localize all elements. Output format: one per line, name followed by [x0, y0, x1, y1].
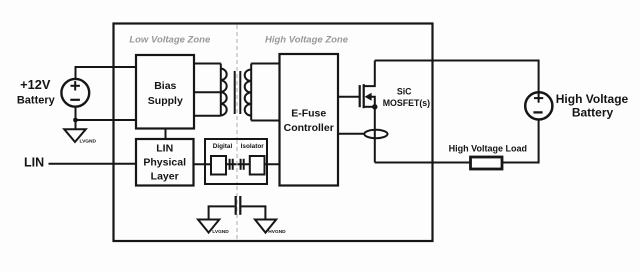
svg-text:LVGND: LVGND [80, 138, 97, 144]
wire HV battery down [502, 119, 539, 162]
transformer core [234, 71, 236, 114]
source junction dot [372, 104, 377, 109]
svg-text:MOSFET(s): MOSFET(s) [383, 98, 430, 108]
battery B2 high voltage [525, 92, 552, 119]
isolation capacitor C1 [230, 159, 233, 170]
svg-text:Battery: Battery [17, 94, 56, 106]
svg-text:Controller: Controller [284, 122, 334, 134]
svg-text:Isolator: Isolator [241, 143, 265, 150]
secondary winding [250, 64, 252, 121]
svg-text:Supply: Supply [148, 95, 183, 107]
svg-text:LIN: LIN [156, 143, 173, 155]
wire secondary top to e-fuse [251, 63, 279, 65]
svg-text:Layer: Layer [151, 171, 179, 183]
wire bias to primary center tap [194, 91, 221, 93]
ground LVGND bottom [198, 220, 229, 236]
svg-text:LIN: LIN [24, 156, 44, 170]
wire LVGND branch to Y-capacitor [209, 206, 235, 219]
wire bias to primary bottom [194, 115, 221, 117]
svg-text:High Voltage: High Voltage [556, 92, 629, 106]
isolator internal wire [205, 163, 267, 165]
svg-text:LVGND: LVGND [212, 229, 229, 235]
zone boundary box [114, 24, 433, 242]
body arrow [365, 93, 372, 101]
label +12V Battery [17, 77, 56, 107]
svg-text:Bias: Bias [154, 80, 176, 92]
svg-text:Low Voltage Zone: Low Voltage Zone [129, 35, 211, 46]
drain stub [364, 61, 375, 87]
digital isolator block [205, 139, 267, 184]
LIN physical layer block [136, 139, 194, 186]
svg-text:+12V: +12V [20, 77, 51, 92]
bias supply block [136, 55, 194, 129]
wire drain to HV battery [375, 61, 539, 93]
e-fuse controller block [280, 54, 339, 186]
zone divider segment through isolator [236, 140, 238, 183]
junction dot battery- node [73, 118, 78, 123]
Y-capacitor C3 [236, 196, 241, 215]
isolator left cell [211, 156, 226, 175]
wire Y-capacitor to HVGND branch [241, 206, 265, 219]
wire bias supply to LIN physical layer [165, 129, 167, 140]
wire e-fuse source sense [338, 133, 365, 135]
MOSFET Q1 SiC [360, 61, 378, 110]
svg-text:E-Fuse: E-Fuse [291, 108, 326, 120]
svg-text:SiC: SiC [397, 87, 412, 97]
wire battery- down to ground [75, 107, 77, 130]
battery B1 +12V source symbol [61, 79, 89, 107]
wire bias to primary top [194, 63, 221, 65]
wire source down [374, 107, 376, 163]
isolator right cell [250, 156, 265, 175]
current sense ellipse [364, 130, 387, 138]
ground HVGND bottom [255, 220, 286, 236]
primary winding [220, 64, 222, 116]
wire secondary bottom to e-fuse [251, 120, 279, 122]
load resistor [471, 157, 503, 169]
wire battery+ to bias supply [76, 67, 137, 79]
isolation capacitor C2 [241, 159, 244, 170]
wire LIN input [49, 163, 137, 165]
channel bar [363, 84, 365, 108]
ground LVGND under battery [64, 129, 96, 144]
source stub [364, 106, 375, 108]
wire e-fuse gate drive [338, 96, 359, 98]
wire ground node to bias supply [76, 119, 137, 121]
svg-text:Battery: Battery [572, 106, 614, 120]
transformer T1 [194, 64, 280, 121]
label SiC MOSFET(s) [383, 87, 430, 108]
svg-text:Digital: Digital [213, 143, 233, 150]
svg-text:High Voltage Load: High Voltage Load [449, 143, 527, 153]
svg-text:High Voltage Zone: High Voltage Zone [265, 35, 349, 46]
label High Voltage Battery [556, 92, 629, 120]
gate bar [359, 85, 361, 107]
wire LIN phy to digital isolator to e-fuse [194, 163, 280, 165]
zone divider dashed line [236, 25, 238, 240]
wire load to source [375, 162, 471, 164]
svg-text:Physical: Physical [143, 157, 186, 169]
svg-text:HVGND: HVGND [268, 229, 286, 235]
